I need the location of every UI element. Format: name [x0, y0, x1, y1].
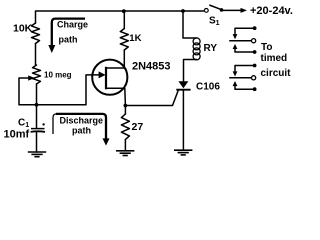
svg-text:C106: C106	[196, 81, 220, 92]
svg-text:path: path	[59, 35, 78, 45]
svg-text:path: path	[72, 126, 91, 136]
svg-text:1K: 1K	[129, 33, 141, 44]
svg-text:circuit: circuit	[261, 68, 292, 79]
svg-text:2N4853: 2N4853	[132, 61, 171, 73]
svg-text:27: 27	[132, 121, 144, 133]
svg-text:timed: timed	[261, 53, 288, 64]
svg-text:RY: RY	[204, 43, 218, 54]
svg-text:+20-24v.: +20-24v.	[250, 5, 293, 17]
svg-text:10mf: 10mf	[4, 129, 30, 141]
svg-text:10 meg: 10 meg	[44, 70, 72, 79]
svg-text:10K: 10K	[13, 23, 33, 35]
svg-text:Charge: Charge	[57, 20, 88, 30]
svg-text:Discharge: Discharge	[60, 116, 104, 126]
svg-text:To: To	[261, 42, 272, 53]
